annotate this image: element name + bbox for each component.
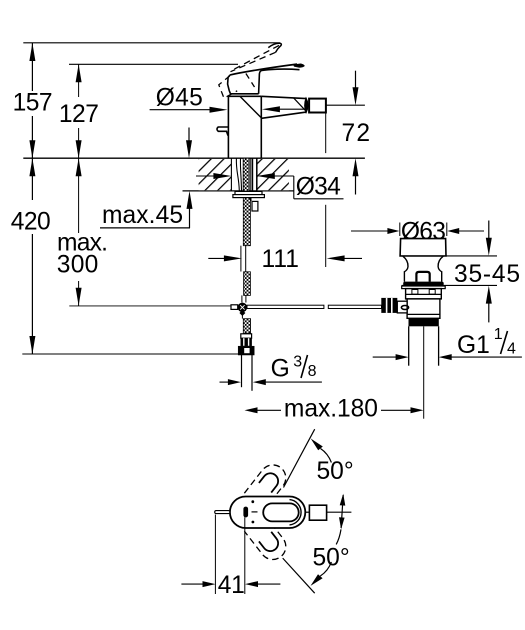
svg-text:3: 3 bbox=[293, 353, 302, 370]
body lower bbox=[407, 299, 440, 318]
svg-text:111: 111 bbox=[262, 246, 299, 273]
tail centerline bbox=[423, 326, 425, 418]
35-45 dim bbox=[488, 221, 490, 240]
svg-text:G: G bbox=[271, 356, 290, 383]
actuator pipe bbox=[397, 301, 407, 313]
tailpipe bbox=[408, 326, 410, 365]
aerator square bbox=[309, 505, 326, 520]
deck hatch left bbox=[199, 159, 232, 190]
aerator bbox=[309, 99, 326, 113]
popup guide block bbox=[252, 201, 258, 211]
spout end cap bbox=[305, 98, 308, 112]
svg-text:127: 127 bbox=[59, 101, 99, 128]
neck right bbox=[438, 256, 443, 282]
Ø45 inner arrow bbox=[274, 108, 306, 110]
svg-text:Ø34: Ø34 bbox=[296, 173, 341, 200]
dim line 157 bbox=[31, 43, 33, 91]
svg-text:41: 41 bbox=[218, 572, 245, 599]
center dash mark bbox=[252, 511, 258, 513]
hole edge lines bbox=[230, 158, 232, 191]
left rod bbox=[215, 511, 230, 514]
svg-text:35-45: 35-45 bbox=[454, 261, 520, 288]
svg-text:50°: 50° bbox=[317, 458, 354, 485]
hose end fitting bbox=[241, 334, 252, 338]
connector line bbox=[305, 511, 309, 513]
ball joint bbox=[238, 303, 248, 313]
body obround bbox=[230, 497, 305, 529]
dim line 127/max300 bbox=[78, 65, 80, 98]
spout bottom bbox=[262, 112, 307, 118]
body chamfer bbox=[240, 96, 262, 118]
41 ext lines bbox=[214, 515, 216, 595]
svg-text:420: 420 bbox=[11, 209, 51, 236]
svg-text:max.45: max.45 bbox=[102, 202, 183, 229]
actuator knob bbox=[381, 298, 397, 313]
handle blade beak bbox=[294, 64, 305, 68]
right inner cap arc bbox=[290, 500, 302, 525]
hose chk band 2 bbox=[244, 272, 251, 296]
lever slot bbox=[263, 503, 299, 521]
72 ext line bbox=[326, 104, 365, 106]
neck left bbox=[403, 256, 408, 282]
flange lower ring bbox=[402, 286, 446, 289]
G1 1/4 dim bbox=[373, 356, 397, 358]
handle blade bottom edge bbox=[259, 69, 300, 94]
hose curve in deck hole bbox=[236, 158, 239, 191]
straight pipe line in hole bbox=[250, 158, 252, 201]
svg-text:300: 300 bbox=[57, 252, 99, 279]
rod tab bbox=[217, 127, 229, 136]
spout top bbox=[261, 96, 306, 98]
body upper bbox=[406, 289, 442, 299]
svg-text:max.180: max.180 bbox=[284, 396, 378, 423]
dashed lever lower (rotated +52) bbox=[244, 515, 291, 564]
G3/8 dim bbox=[220, 381, 231, 383]
111 dim bbox=[208, 257, 231, 259]
Ø63 dim bbox=[351, 230, 389, 232]
upper 50 ray bbox=[284, 429, 315, 487]
lower 50 ray bbox=[283, 558, 315, 593]
handle pivot block bbox=[228, 75, 259, 94]
middle double arrow bbox=[341, 495, 343, 528]
actuator pin bbox=[401, 306, 408, 310]
lower arc arrow at ray bbox=[311, 574, 323, 586]
svg-text:Ø45: Ø45 bbox=[156, 85, 203, 112]
ref line 127 bbox=[69, 63, 238, 65]
handle solid blade top edge bbox=[230, 64, 297, 75]
G3/8 pipe bbox=[241, 355, 243, 387]
svg-text:1: 1 bbox=[494, 326, 503, 343]
svg-text:50°: 50° bbox=[313, 544, 350, 571]
axis line bbox=[327, 511, 352, 513]
line below ball bbox=[241, 315, 243, 318]
handle dashed raised: edges bbox=[233, 45, 279, 69]
hose lines below shank bbox=[240, 246, 242, 272]
aerator ext line segments bbox=[325, 113, 327, 153]
handle dashed tip (solid) bbox=[268, 43, 281, 52]
drain assembly bbox=[381, 239, 446, 419]
420 ref line bbox=[22, 353, 240, 355]
plug cap bbox=[400, 239, 446, 256]
spout end diagonal bbox=[294, 98, 306, 111]
upper arc arrow at ray bbox=[311, 439, 323, 451]
dashed lever upper (rotated -52) bbox=[244, 460, 291, 509]
threaded shank in hole bbox=[243, 158, 249, 191]
faucet body bbox=[227, 96, 229, 157]
lines to ball bbox=[241, 295, 243, 302]
35-45 ref lines bbox=[400, 255, 497, 257]
max180 dim bbox=[245, 407, 258, 413]
Ø34 dim arrows bbox=[196, 175, 220, 177]
hose end knurl bbox=[241, 338, 252, 346]
shank assembly below faucet bbox=[231, 158, 382, 391]
41 dim bbox=[181, 583, 204, 585]
threaded shank below nut bbox=[243, 198, 250, 246]
72 dim bbox=[355, 71, 357, 88]
max.45 upper arrow bbox=[188, 128, 190, 143]
deck top line bbox=[23, 157, 365, 159]
bottom black band bbox=[409, 319, 439, 327]
svg-text:72: 72 bbox=[342, 120, 371, 147]
svg-text:157: 157 bbox=[13, 89, 53, 116]
svg-text:8: 8 bbox=[308, 363, 317, 380]
ref line top (157) bbox=[23, 42, 280, 44]
pivot bar bbox=[243, 507, 248, 518]
G3/8 nut bbox=[238, 346, 254, 355]
deck bottom line bbox=[183, 190, 294, 192]
knob square bbox=[416, 272, 429, 282]
svg-text:G1: G1 bbox=[457, 332, 490, 359]
hose chk band 3 bbox=[243, 319, 250, 334]
handle dashed pivot bbox=[219, 76, 237, 98]
max300 ref line bbox=[69, 305, 231, 307]
popup rod bbox=[247, 305, 324, 308]
deck hatch right bbox=[257, 159, 289, 190]
flange black band bbox=[403, 282, 444, 286]
svg-text:4: 4 bbox=[507, 340, 516, 357]
rod clamp bbox=[231, 305, 238, 310]
mounting nut bbox=[235, 191, 262, 194]
